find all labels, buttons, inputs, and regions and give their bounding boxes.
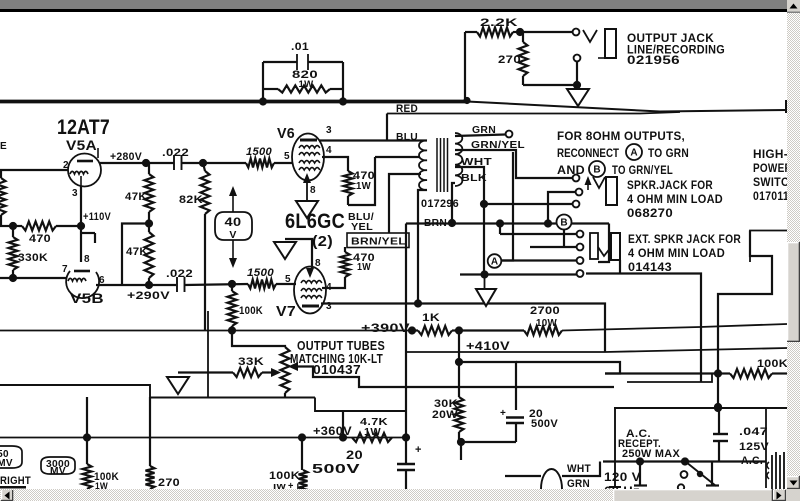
svg-text:270: 270 bbox=[158, 477, 180, 489]
switch (AC) bbox=[678, 462, 716, 491]
wire: plug lead bbox=[505, 475, 541, 477]
resistor 2700 10W bbox=[524, 305, 562, 335]
svg-text:100K: 100K bbox=[239, 305, 263, 317]
wire: GRN tap bbox=[455, 135, 505, 137]
svg-text:V5A: V5A bbox=[66, 137, 97, 153]
wire: bypass loop left bbox=[262, 62, 264, 100]
wire: BLK tap down bbox=[452, 183, 455, 223]
svg-text:AND: AND bbox=[557, 163, 585, 177]
resistor 330K bbox=[9, 226, 49, 278]
svg-text:.01: .01 bbox=[291, 41, 309, 53]
wire: +410V to cap 20/500 bbox=[459, 362, 516, 410]
vertical scrollbar track bbox=[787, 0, 800, 501]
node: +110V junction bbox=[77, 222, 85, 230]
wire: 47K bypass loop bbox=[122, 224, 149, 286]
ground (output jack) bbox=[567, 89, 589, 106]
node: 4.7K right bbox=[402, 433, 410, 441]
wire: left edge stub bbox=[0, 225, 13, 227]
svg-text:MV: MV bbox=[0, 458, 13, 469]
resistor 47K (lower) bbox=[126, 224, 154, 286]
wire: switch stepped bbox=[718, 231, 772, 374]
corner bbox=[786, 489, 800, 501]
wire: tap to primary bbox=[375, 156, 420, 158]
node: 360V mid bbox=[339, 433, 347, 441]
node: 330K bottom bbox=[9, 274, 17, 282]
svg-text:4: 4 bbox=[326, 145, 332, 156]
svg-text:.047: .047 bbox=[739, 426, 768, 438]
label: pin 8 bracket bbox=[80, 233, 95, 265]
wire: GRN/YEL drop to A bbox=[502, 152, 513, 261]
transformer primary winding bbox=[419, 140, 427, 190]
wire: WHT tap bbox=[455, 167, 484, 275]
wire: recept terminal bbox=[634, 462, 647, 486]
resistor 100K (right) bbox=[718, 358, 788, 378]
wire: spkr middle contact drop bbox=[548, 192, 579, 224]
terminal: ext jack 3 bbox=[577, 257, 584, 264]
wire: V7 cathode line right bbox=[321, 304, 605, 353]
node: AC 2 bbox=[681, 457, 689, 465]
resistor 30K 20W bbox=[432, 397, 464, 442]
right edge stub bbox=[785, 100, 787, 113]
oval: 50 MV bbox=[0, 446, 22, 469]
wire: GRN/YEL tap to spkr jack bbox=[455, 150, 572, 178]
transformer core bbox=[437, 138, 448, 192]
wire: 1500 to V6 pin5 bbox=[274, 162, 293, 164]
wire: V7 cathode to ground bbox=[285, 239, 314, 278]
wire: ext jack sleeve line bbox=[501, 259, 576, 261]
svg-text:GRN: GRN bbox=[567, 478, 590, 490]
node: 82K top junction bbox=[199, 159, 207, 167]
node: 1K right bbox=[455, 326, 463, 334]
wire: pin2 from left edge bbox=[0, 169, 68, 171]
svg-text:BLK: BLK bbox=[461, 172, 487, 184]
output jack body bbox=[605, 29, 616, 58]
svg-text:4 OHM MIN LOAD: 4 OHM MIN LOAD bbox=[627, 194, 723, 206]
svg-text:HIGH-: HIGH- bbox=[753, 149, 788, 161]
svg-text:V5B: V5B bbox=[70, 290, 104, 306]
wire: 2700 to right edge bbox=[562, 324, 787, 331]
svg-text:FOR 8OHM OUTPUTS,: FOR 8OHM OUTPUTS, bbox=[557, 129, 685, 143]
svg-text:500V: 500V bbox=[531, 418, 558, 430]
label: OUTPUT JACK LINE/RECORDING 021956 bbox=[627, 31, 725, 67]
svg-text:017011: 017011 bbox=[753, 191, 789, 203]
node: +390V bbox=[408, 326, 416, 334]
svg-text:.022: .022 bbox=[166, 268, 193, 280]
node: +410V bbox=[455, 358, 463, 366]
svg-text:BRN/YEL: BRN/YEL bbox=[351, 236, 406, 248]
switch contact V (output jack) bbox=[583, 30, 597, 42]
resistor 100K (bottom mid) bbox=[269, 470, 308, 492]
svg-text:+390V: +390V bbox=[361, 323, 410, 335]
resistor 1500 (V6 grid) bbox=[246, 146, 274, 168]
wire: 470 to BLU/YEL tap bbox=[348, 157, 375, 205]
terminal: jack tip contact bbox=[573, 29, 580, 36]
wire: BRN/YEL to primary tap bbox=[389, 174, 421, 233]
wire: x406 below bbox=[405, 438, 407, 465]
smudge under RIGHT bbox=[0, 486, 26, 489]
terminal: spkr jack tip bbox=[573, 175, 580, 182]
svg-text:V6: V6 bbox=[277, 125, 295, 142]
resistor 100K 1W (bottom) bbox=[83, 464, 120, 492]
svg-text:6L6GC: 6L6GC bbox=[285, 210, 345, 233]
svg-text:8: 8 bbox=[310, 185, 316, 196]
svg-text:B: B bbox=[560, 218, 567, 229]
wire: pin4 screen line bbox=[322, 277, 345, 288]
terminal: ext jack 1 bbox=[577, 231, 584, 238]
svg-text:250W MAX: 250W MAX bbox=[622, 448, 680, 460]
oval: 3000 MV bbox=[41, 457, 75, 477]
ext spkr jack body bbox=[611, 233, 620, 260]
wire: ext jack 4 line bbox=[460, 273, 577, 275]
wire: V5A plate to +280V node bbox=[100, 162, 174, 164]
wire: +360V cap drop bbox=[301, 438, 303, 471]
wire: switch to AC box bbox=[717, 374, 719, 408]
wire: mid bus L2 bbox=[406, 348, 787, 352]
ground (V6) bbox=[296, 201, 318, 218]
wire: return jog bbox=[627, 374, 712, 383]
svg-text:OUTPUT TUBES: OUTPUT TUBES bbox=[297, 339, 385, 353]
svg-text:1500: 1500 bbox=[246, 146, 273, 158]
potentiometer element bbox=[232, 331, 290, 399]
wire: thick bus top-left bbox=[0, 100, 467, 104]
arrow contact (spkr jack) bbox=[585, 176, 592, 190]
capacitor .022 (coupling V6) bbox=[162, 147, 189, 170]
capacitor .01 bbox=[263, 41, 343, 70]
svg-text:EXT. SPKR JACK FOR: EXT. SPKR JACK FOR bbox=[628, 234, 741, 246]
wire: BLK bus drop to bottom bus bbox=[405, 224, 407, 438]
svg-text:+: + bbox=[500, 408, 506, 419]
svg-text:500V: 500V bbox=[312, 462, 361, 476]
circled A (wire) bbox=[488, 254, 502, 268]
viewer top bar bbox=[0, 0, 788, 9]
wire: V6 cathode to ground bbox=[303, 173, 311, 201]
wire: bus to right edge bbox=[467, 102, 787, 112]
label: 120 V 60 Hz bbox=[604, 472, 641, 498]
node: 30K bottom bbox=[457, 438, 465, 446]
label: pin 1 bbox=[97, 148, 99, 158]
svg-text:8: 8 bbox=[84, 254, 90, 265]
capacitor 20 500V (mid) bbox=[500, 408, 558, 442]
switch contact V (spkr jack) bbox=[593, 177, 605, 188]
svg-text:017296: 017296 bbox=[421, 198, 459, 210]
svg-text:8: 8 bbox=[315, 258, 321, 269]
vscroll down button bbox=[787, 476, 800, 489]
resistor 1500 (V7 grid) bbox=[247, 267, 276, 289]
hscroll right button bbox=[773, 490, 786, 501]
wire: AC line bbox=[603, 460, 766, 462]
pot wiper arrow bbox=[262, 368, 281, 377]
wire: +390V bus bbox=[0, 330, 410, 332]
label: EXT SPKR JACK FOR 4 OHM MIN LOAD 014143 bbox=[628, 234, 741, 274]
pot tap arrow + wiper line bbox=[288, 362, 614, 387]
svg-text:010437: 010437 bbox=[313, 363, 361, 377]
triode V5A bbox=[68, 154, 101, 187]
wire: cap to 30K bottom bbox=[461, 441, 516, 443]
svg-text:.022: .022 bbox=[162, 147, 189, 159]
resistor 470 (V5A) bbox=[13, 222, 81, 246]
wire: 1500 to V7 pin5 bbox=[276, 283, 296, 285]
wire: bypass loop right bbox=[342, 62, 344, 100]
vscroll thumb bbox=[787, 242, 800, 342]
power transformer (right edge, cut) bbox=[767, 452, 784, 490]
wire: ext jack line 2 bbox=[530, 246, 576, 248]
node: 100K 1W top bbox=[83, 433, 91, 441]
svg-text:125V: 125V bbox=[739, 441, 769, 453]
wire: ext jack return bbox=[619, 260, 621, 274]
node: jack sleeve junction bbox=[573, 81, 581, 89]
terminal: ext jack 2 bbox=[577, 244, 584, 251]
wire: w1 feed bbox=[499, 224, 501, 235]
wire: cap to 1500 bbox=[185, 284, 249, 285]
resistor 820 1W bbox=[263, 69, 343, 93]
svg-text:33K: 33K bbox=[238, 356, 264, 368]
node: .047 top bbox=[714, 403, 722, 411]
transformer secondary winding bbox=[455, 133, 462, 186]
label: SPKR JACK FOR 4 OHM MIN LOAD 068270 bbox=[627, 180, 723, 220]
svg-text:330K: 330K bbox=[18, 252, 48, 264]
node: box top bbox=[714, 404, 722, 412]
wire: 2.2K down to bus bbox=[464, 32, 466, 100]
wire: RED drop to plate line bbox=[386, 114, 388, 142]
pentode V6 bbox=[292, 134, 324, 181]
svg-text:068270: 068270 bbox=[627, 208, 673, 220]
wire: 33K left to ground bbox=[178, 371, 233, 373]
svg-text:2.2K: 2.2K bbox=[480, 17, 518, 29]
hscroll thumb bbox=[613, 489, 773, 501]
annotation arrow up bbox=[229, 186, 237, 212]
svg-text:2700: 2700 bbox=[530, 305, 560, 317]
wire: to output jack tip bbox=[520, 31, 572, 33]
terminal: jack sleeve contact bbox=[574, 55, 581, 62]
spkr jack body bbox=[606, 177, 617, 205]
triode V5B bbox=[66, 271, 99, 298]
svg-text:1K: 1K bbox=[422, 312, 440, 324]
node: 360V left bbox=[298, 433, 306, 441]
horizontal scrollbar track bbox=[0, 489, 787, 501]
annotation arrow down bbox=[229, 240, 237, 268]
terminal: spkr jack sleeve bbox=[573, 201, 580, 208]
resistor 100K (V7 grid leak) bbox=[228, 284, 264, 331]
svg-text:MV: MV bbox=[50, 466, 66, 477]
wire: pin4 screen line bbox=[322, 157, 348, 171]
circled B (wire) bbox=[557, 215, 572, 230]
svg-text:RIGHT: RIGHT bbox=[0, 475, 31, 487]
svg-text:014143: 014143 bbox=[628, 262, 672, 274]
hscroll left button bbox=[1, 490, 13, 501]
switch box outline bbox=[750, 231, 787, 263]
ext jack tip bar bbox=[590, 233, 598, 259]
svg-text:4 OHM MIN LOAD: 4 OHM MIN LOAD bbox=[628, 248, 725, 260]
wire: jack sleeve down bbox=[576, 61, 578, 85]
capacitor .022 (coupling V7) bbox=[166, 268, 193, 292]
resistor 470 1W (V7 screen) bbox=[341, 247, 376, 277]
wire: to V5B pin7 bbox=[0, 277, 67, 279]
svg-text:1W: 1W bbox=[356, 181, 371, 192]
label: HIGH-POWER SWITCH 017011 bbox=[753, 149, 797, 203]
node: +290V junction bbox=[145, 281, 153, 289]
wire: recept terminal 2 bbox=[706, 462, 719, 486]
svg-text:POWER: POWER bbox=[753, 163, 792, 175]
note: FOR 8OHM OUTPUTS bbox=[557, 129, 689, 177]
svg-text:5: 5 bbox=[285, 274, 291, 285]
resistor 270 (bottom) bbox=[146, 466, 181, 489]
wire: 270 bottom to ground node bbox=[523, 84, 577, 86]
svg-text:3: 3 bbox=[72, 188, 78, 199]
svg-text:RECONNECT: RECONNECT bbox=[557, 146, 620, 160]
wire: B stub bbox=[563, 230, 565, 248]
wire: V5A cathode down to V5B pin8 bbox=[80, 187, 82, 263]
svg-text:V: V bbox=[229, 229, 236, 241]
resistor 1K bbox=[410, 312, 452, 335]
capacitor .047 bbox=[713, 408, 769, 467]
svg-text:1W: 1W bbox=[299, 79, 314, 90]
node: pot top bbox=[228, 326, 236, 334]
wire: WHT lead bbox=[562, 462, 600, 477]
wire: ext jack top line bbox=[500, 233, 576, 235]
svg-text:WHT: WHT bbox=[567, 463, 591, 475]
terminal: ext jack 4 bbox=[577, 270, 584, 277]
svg-text:40: 40 bbox=[225, 217, 242, 229]
wire: BLK bus bbox=[406, 222, 452, 224]
label: A.C. RECEPT 250W MAX bbox=[618, 428, 680, 460]
annotation: 40 V oval bbox=[215, 212, 252, 241]
node: plate junction bbox=[142, 159, 150, 167]
node: RED junction bbox=[463, 97, 470, 104]
vscroll up button bbox=[787, 0, 800, 13]
svg-text:+280V: +280V bbox=[110, 151, 142, 163]
box: output tubes matching bbox=[207, 311, 209, 398]
circled B (note) bbox=[589, 161, 605, 177]
wire: V5B plate line bbox=[96, 284, 176, 286]
svg-text:E: E bbox=[0, 140, 7, 152]
svg-text:100K: 100K bbox=[757, 358, 788, 370]
svg-text:7: 7 bbox=[62, 264, 68, 275]
wire: 100K 1W drop bbox=[86, 397, 88, 464]
svg-text:+110V: +110V bbox=[83, 211, 111, 223]
svg-text:+360V: +360V bbox=[313, 426, 352, 438]
resistor 82K bbox=[179, 163, 210, 331]
svg-text:(2): (2) bbox=[312, 233, 333, 250]
svg-text:+: + bbox=[415, 444, 421, 456]
node: 330K top bbox=[9, 222, 17, 230]
terminal: spkr jack mid bbox=[576, 189, 583, 196]
AC recept right edge bbox=[765, 408, 767, 488]
node: 100K left bbox=[714, 369, 722, 377]
svg-text:A: A bbox=[630, 148, 637, 159]
resistor 270 (jack) bbox=[498, 32, 528, 85]
svg-text:TO GRN/YEL: TO GRN/YEL bbox=[612, 163, 673, 177]
svg-text:A: A bbox=[491, 257, 498, 268]
svg-text:SPKR.JACK FOR: SPKR.JACK FOR bbox=[627, 180, 713, 192]
svg-text:120 V: 120 V bbox=[604, 472, 641, 484]
svg-text:5: 5 bbox=[284, 151, 290, 162]
svg-text:021956: 021956 bbox=[627, 53, 680, 67]
node: 100K top junction bbox=[228, 280, 236, 288]
svg-text:YEL: YEL bbox=[351, 221, 373, 233]
wire: 100K line left bbox=[605, 372, 718, 374]
svg-text:1W: 1W bbox=[357, 262, 371, 273]
node: BRN to cathode line bbox=[414, 299, 422, 307]
node: 47K junction bbox=[145, 219, 153, 227]
wire: V6 plate to transformer bbox=[319, 139, 427, 141]
wire: to 2700 bbox=[459, 329, 524, 331]
wire: primary bottom (BRN) down bbox=[418, 190, 427, 304]
resistor (left edge, cut) bbox=[0, 178, 6, 215]
circled A (note) bbox=[626, 144, 642, 160]
wire: L4 bus left bbox=[0, 385, 315, 398]
node: WHT corner bbox=[480, 200, 488, 208]
svg-text:470: 470 bbox=[29, 233, 51, 245]
resistor 2.2K bbox=[465, 17, 520, 37]
pentode V7 bbox=[294, 267, 326, 314]
label: BLU/YEL bbox=[348, 211, 374, 233]
svg-text:1500: 1500 bbox=[247, 267, 275, 279]
svg-text:+290V: +290V bbox=[127, 290, 170, 302]
node: L4/270 bbox=[149, 397, 151, 466]
wire: RED line bbox=[387, 112, 680, 114]
svg-text:10W: 10W bbox=[536, 317, 557, 329]
svg-text:20: 20 bbox=[346, 448, 363, 462]
svg-text:+410V: +410V bbox=[466, 341, 510, 353]
wire: 30K bottom down bbox=[460, 442, 462, 460]
AC recept box top bbox=[614, 407, 787, 409]
label: OUTPUT TUBES MATCHING 10K-LT 010437 bbox=[290, 339, 385, 377]
wire: cap to 1500 bbox=[182, 162, 247, 164]
AC recept left edge bbox=[609, 408, 621, 487]
node: A ground junction bbox=[480, 270, 488, 278]
resistor 470 1W (V6 screen) bbox=[344, 170, 376, 205]
resistor 4.7K 1W bbox=[352, 416, 392, 442]
box bottom step bbox=[315, 398, 406, 412]
wire: L4 drop bbox=[342, 411, 344, 437]
node: 2.2K/270 junction bbox=[516, 28, 524, 36]
resistor 33K pot bbox=[233, 356, 264, 377]
node: bus junction bbox=[259, 97, 267, 105]
terminal: GRN open bbox=[506, 131, 513, 138]
label: BRN/YEL boxed bbox=[347, 233, 409, 248]
ground (V7) bbox=[274, 242, 296, 259]
wire: return long bbox=[586, 274, 701, 383]
svg-text:B: B bbox=[593, 165, 600, 176]
node: BLK junction bbox=[448, 219, 456, 227]
svg-text:12AT7: 12AT7 bbox=[57, 116, 110, 139]
svg-text:V7: V7 bbox=[276, 303, 296, 320]
capacitor 20 500V (left) bbox=[312, 444, 421, 490]
switch contact V (ext jack) bbox=[598, 247, 611, 256]
node: AC 1 bbox=[636, 457, 644, 465]
plug body bbox=[541, 469, 562, 489]
wire: bottom bus bbox=[0, 437, 407, 439]
wire: BLK to ext jack bbox=[598, 224, 609, 263]
svg-text:3: 3 bbox=[326, 125, 332, 136]
resistor 47K (upper) bbox=[125, 163, 154, 223]
wire: L3 bus bbox=[516, 362, 620, 374]
svg-text:TO GRN: TO GRN bbox=[648, 146, 689, 160]
wire: 1K down to 30K bbox=[458, 331, 460, 398]
ground (A) bbox=[476, 275, 496, 307]
ground (33K) bbox=[167, 377, 189, 394]
